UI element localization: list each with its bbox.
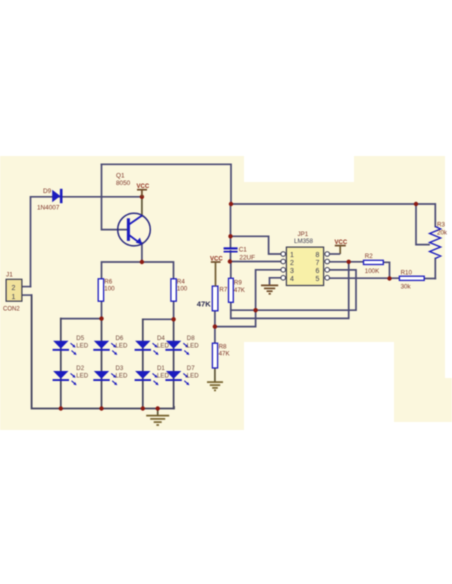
node rail col3 — [141, 406, 145, 410]
svg-text:D7: D7 — [187, 365, 195, 372]
wire R3 wiper tap — [416, 204, 429, 245]
node R2 R10 pin5 — [387, 276, 391, 280]
svg-text:3: 3 — [290, 268, 294, 275]
svg-text:D5: D5 — [76, 335, 84, 342]
ground (R8) — [207, 382, 223, 390]
svg-text:R3: R3 — [437, 222, 445, 229]
svg-text:LED: LED — [76, 342, 88, 349]
capacitor C1 — [224, 247, 256, 262]
LED D6 — [93, 335, 128, 355]
svg-text:D8: D8 — [187, 335, 195, 342]
node R4 LED cols — [171, 317, 175, 321]
svg-text:30k: 30k — [401, 284, 412, 291]
wire R3 bottom stub — [434, 259, 436, 279]
svg-text:D3: D3 — [116, 365, 124, 372]
connector J1 — [3, 272, 22, 313]
svg-text:LM358: LM358 — [294, 238, 313, 245]
power VCC (Q1 collector) — [137, 184, 150, 197]
wire J1 pin2 stub — [22, 286, 31, 288]
svg-text:D4: D4 — [157, 335, 165, 342]
wire R9 top stub — [230, 262, 232, 279]
resistor R7 — [197, 286, 228, 311]
svg-text:R10: R10 — [401, 269, 413, 276]
LED D7 — [165, 365, 199, 385]
wire R2 right to R10 node — [383, 262, 389, 278]
wire IC pin1 to C1 top node — [231, 236, 281, 254]
wire emitter stub — [141, 243, 143, 262]
wire IC pin7 to R2 — [330, 261, 364, 263]
wire top from Q1 area to C1 column — [102, 164, 436, 204]
wire IC pin2 to C1 bottom node — [230, 261, 281, 263]
wire emitter rail to R6 R4 — [102, 262, 174, 279]
LED D3 — [93, 365, 128, 385]
wire R6 bottom to LED col1 col2 — [61, 301, 102, 318]
svg-text:6: 6 — [316, 268, 320, 275]
wire IC pin5 to R10 — [330, 277, 400, 279]
svg-text:C1: C1 — [239, 247, 248, 254]
wire IC pin3 to R7 R8 node — [215, 270, 281, 327]
svg-text:7: 7 — [316, 260, 320, 267]
wire node A pin6 feedback — [231, 270, 356, 310]
resistor R6 — [98, 278, 115, 301]
svg-text:J1: J1 — [6, 272, 13, 279]
svg-text:2: 2 — [12, 285, 16, 292]
svg-text:D1: D1 — [157, 365, 165, 372]
wire C1 stem lower — [230, 251, 232, 262]
node collector VCC — [140, 195, 144, 199]
svg-text:LED: LED — [187, 373, 199, 380]
LED D8 — [165, 335, 199, 355]
power VCC (R7) — [210, 256, 223, 286]
potentiometer R3 — [430, 222, 448, 259]
svg-text:100: 100 — [104, 285, 115, 292]
svg-text:100K: 100K — [365, 268, 380, 275]
wire bottom LED rail — [32, 295, 174, 408]
wire collector stub — [141, 197, 143, 216]
ground (LED rail) — [146, 416, 169, 425]
wire C1 stem upper — [230, 204, 232, 248]
svg-text:LED: LED — [116, 342, 128, 349]
svg-text:Q1: Q1 — [116, 173, 125, 180]
wire LED column 1 — [60, 319, 62, 409]
node pin1 branch — [228, 234, 232, 238]
svg-text:4: 4 — [290, 276, 294, 283]
op-amp JP1 LM358 — [281, 231, 330, 285]
svg-text:R2: R2 — [365, 253, 373, 260]
wire R8 bottom to ground — [214, 368, 216, 382]
diode D9 — [37, 188, 63, 212]
node pin7 R2 — [347, 260, 351, 264]
svg-text:2: 2 — [290, 260, 294, 267]
LED D5 — [53, 335, 89, 355]
node rail col1 — [59, 406, 63, 410]
svg-text:D6: D6 — [116, 335, 124, 342]
ground (IC pin4) — [261, 285, 278, 293]
svg-text:8050: 8050 — [116, 180, 131, 187]
wire LED column 3 — [142, 319, 144, 408]
node R7 R8 — [213, 324, 217, 328]
wire R9 bottom stub — [230, 302, 232, 318]
svg-text:CON2: CON2 — [3, 307, 20, 313]
node rail ground — [156, 406, 160, 410]
svg-text:R4: R4 — [177, 278, 185, 285]
wire LED rail ground stub — [157, 409, 159, 416]
svg-text:5: 5 — [316, 276, 320, 283]
wire node B pin7 feedback — [231, 262, 349, 319]
wire R4 bottom to LED col3 col4 — [143, 301, 174, 319]
svg-text:R9: R9 — [234, 279, 242, 286]
wire R10 right stub — [424, 278, 435, 280]
resistor R4 — [171, 278, 188, 301]
wire IC pin4 ground stub — [270, 278, 281, 285]
wire R3 top stub — [434, 204, 436, 227]
wire J1 pin1 stub — [22, 294, 32, 296]
svg-text:100: 100 — [177, 285, 188, 292]
transistor Q1 — [116, 173, 150, 246]
svg-text:47K: 47K — [234, 287, 246, 294]
svg-text:47K: 47K — [197, 300, 211, 309]
resistor R9 — [229, 278, 246, 302]
node emitter rail — [140, 260, 144, 264]
node C1 top main wire — [229, 202, 233, 206]
svg-text:22UF: 22UF — [239, 254, 255, 261]
svg-text:LED: LED — [116, 373, 128, 380]
svg-text:LED: LED — [187, 342, 199, 349]
wire diode net J1 pin2 to collector node — [31, 197, 142, 287]
svg-text:R7: R7 — [219, 287, 227, 294]
power VCC (IC pin8) — [330, 240, 348, 254]
node pin3 wireA — [253, 308, 257, 312]
LED D2 — [53, 365, 89, 385]
wire LED column 4 — [173, 319, 175, 408]
svg-text:1N4007: 1N4007 — [37, 205, 60, 212]
resistor R2 — [364, 253, 384, 275]
node rail col2 — [99, 406, 103, 410]
wire LED column 2 — [101, 319, 103, 409]
svg-text:8: 8 — [316, 252, 320, 259]
svg-text:1: 1 — [290, 252, 294, 259]
LED D4 — [135, 335, 170, 355]
svg-text:D2: D2 — [76, 365, 84, 372]
wire base riser for Q1 — [102, 164, 128, 229]
resistor R10 — [399, 269, 424, 290]
resistor R8 — [212, 343, 230, 368]
node C1 bottom pin2 — [228, 259, 232, 263]
wire R7 bottom to R8 top — [214, 311, 216, 343]
svg-text:R6: R6 — [104, 278, 112, 285]
svg-text:LED: LED — [76, 373, 88, 380]
svg-text:20k: 20k — [437, 230, 448, 237]
svg-text:LED: LED — [157, 373, 169, 380]
svg-text:R8: R8 — [219, 343, 227, 350]
svg-text:D9: D9 — [43, 188, 52, 195]
LED D1 — [135, 365, 170, 385]
svg-text:47K: 47K — [219, 351, 231, 358]
svg-text:1: 1 — [12, 294, 16, 301]
node R6 LED cols — [99, 316, 103, 320]
svg-text:LED: LED — [157, 342, 169, 349]
node R3 wiper — [414, 202, 418, 206]
